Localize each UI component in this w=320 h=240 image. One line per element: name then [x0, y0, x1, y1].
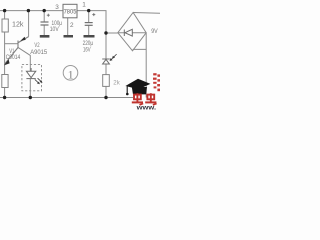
arrow V2 emitter [20, 37, 25, 41]
wire V2 emitter vertical [28, 11, 30, 37]
capacitor C2 220u plates [85, 23, 93, 26]
IC U1 7805 box [63, 4, 77, 17]
wire bottom ground rail [0, 97, 133, 99]
svg-text:1: 1 [68, 67, 74, 81]
svg-text:C9014: C9014 [6, 54, 21, 61]
arrow V1 emitter [4, 59, 10, 65]
svg-text:10V: 10V [50, 26, 59, 33]
ground pin2 [64, 35, 74, 38]
watermark red character chong 2 [145, 93, 156, 105]
svg-text:3: 3 [55, 4, 59, 11]
ground C2 [84, 35, 95, 38]
svg-text:2k: 2k [113, 80, 120, 87]
LED V3 in dashed box [26, 68, 35, 79]
wire bridge node horizontal [106, 32, 118, 34]
bridge rectifier B1 diamond [118, 13, 146, 51]
wire 220uF cap stem [88, 11, 90, 23]
wire 7805 output to bridge node [77, 11, 106, 33]
photodiode V4 right [102, 59, 110, 64]
svg-text:9V: 9V [151, 28, 158, 35]
diode inside bridge [118, 29, 146, 36]
wire V1 base [5, 43, 18, 45]
node B rail-V2 [27, 9, 30, 12]
node G gnd-led1 [29, 96, 32, 99]
node A rail-12k [3, 9, 6, 12]
plus C1 [47, 14, 50, 17]
svg-text:12k: 12k [12, 22, 24, 29]
dashed box photo emitter [22, 65, 42, 91]
capacitor C1 100u plates [41, 22, 49, 25]
svg-text:A9015: A9015 [30, 49, 47, 56]
svg-text:1: 1 [82, 1, 86, 8]
plus C2 [92, 13, 95, 16]
node H gnd-led2 [104, 96, 107, 99]
wire left vertical [4, 11, 6, 19]
transistor V1 C9014 [5, 37, 29, 64]
wire 100uF cap stem [43, 11, 45, 22]
wire bridge bottom elbow [133, 49, 147, 50]
resistor R1 12k [2, 19, 8, 32]
watermark red character chong 1 [132, 93, 143, 105]
node F gnd-left [3, 96, 6, 99]
svg-text:16V: 16V [83, 47, 91, 54]
watermark graduation cap [125, 79, 150, 95]
node E bridge-in [104, 31, 107, 34]
svg-text:www.: www. [135, 105, 156, 110]
wire LED2 column [105, 33, 107, 59]
meter circle 1 [63, 66, 78, 81]
watermark red fragment right edge [153, 73, 160, 91]
wire LED1 column [18, 48, 30, 71]
arrows LED1 emit [35, 78, 43, 84]
arrows LED2 [110, 54, 117, 61]
resistor R3 2k [103, 75, 110, 87]
node dots top rail [3, 9, 108, 99]
wire top 5V rail left [0, 10, 63, 12]
node D pin1-C2 [87, 9, 90, 12]
node C rail-C1 [43, 9, 46, 12]
svg-text:2: 2 [70, 22, 74, 29]
resistor R2 bottom-left [2, 75, 8, 88]
svg-text:7805: 7805 [64, 9, 77, 16]
wire AC right vertical [145, 33, 147, 98]
wire 7805 pin2 ground [67, 18, 69, 35]
ground C1 [40, 35, 50, 38]
wire AC input top [133, 12, 160, 15]
